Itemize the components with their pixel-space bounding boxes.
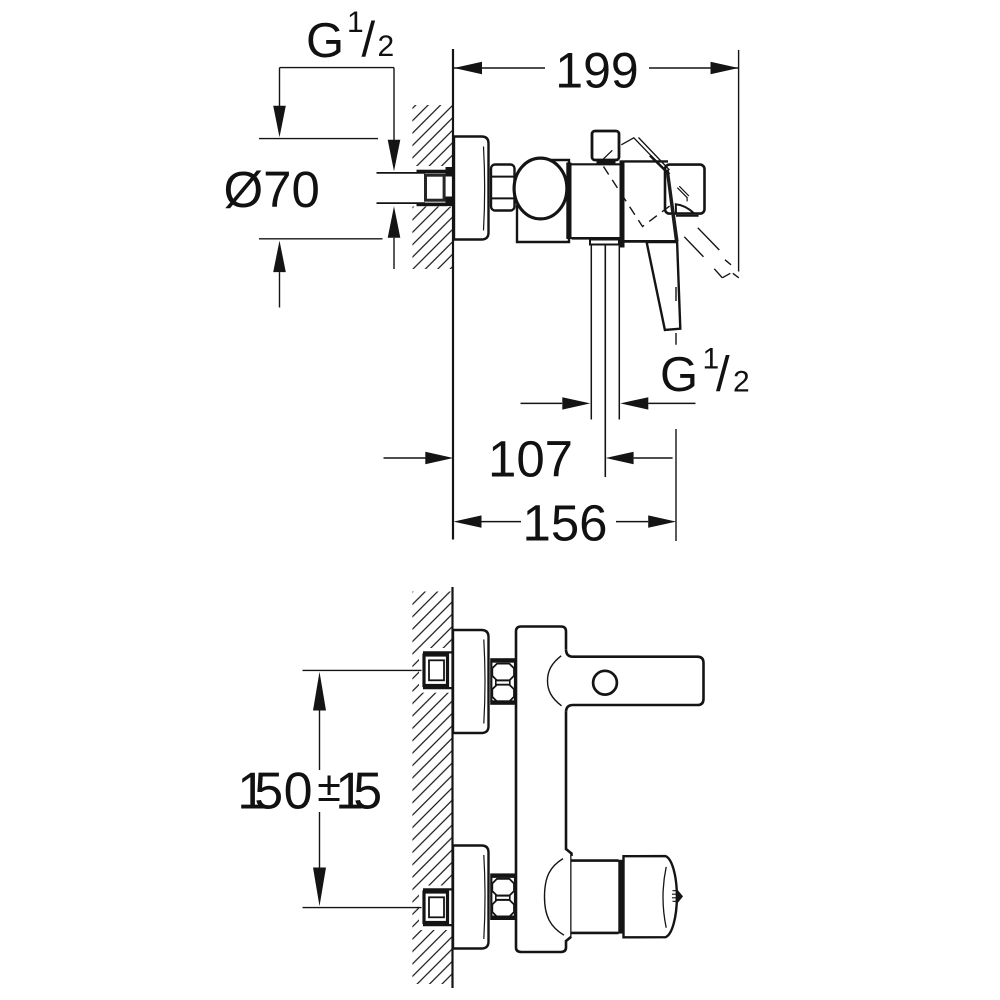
svg-text:107: 107 [488, 431, 573, 488]
svg-text:Ø70: Ø70 [224, 161, 320, 218]
svg-text:5: 5 [353, 763, 382, 821]
svg-text:5: 5 [254, 763, 283, 821]
svg-text:G: G [306, 14, 344, 68]
svg-text:199: 199 [555, 43, 638, 99]
svg-text:2: 2 [378, 30, 395, 63]
svg-text:0: 0 [284, 763, 313, 821]
svg-text:/: / [716, 348, 730, 402]
svg-text:±: ± [317, 763, 341, 811]
svg-text:/: / [362, 13, 376, 67]
svg-text:156: 156 [522, 495, 607, 552]
svg-text:G: G [660, 348, 698, 402]
svg-text:2: 2 [733, 366, 750, 399]
